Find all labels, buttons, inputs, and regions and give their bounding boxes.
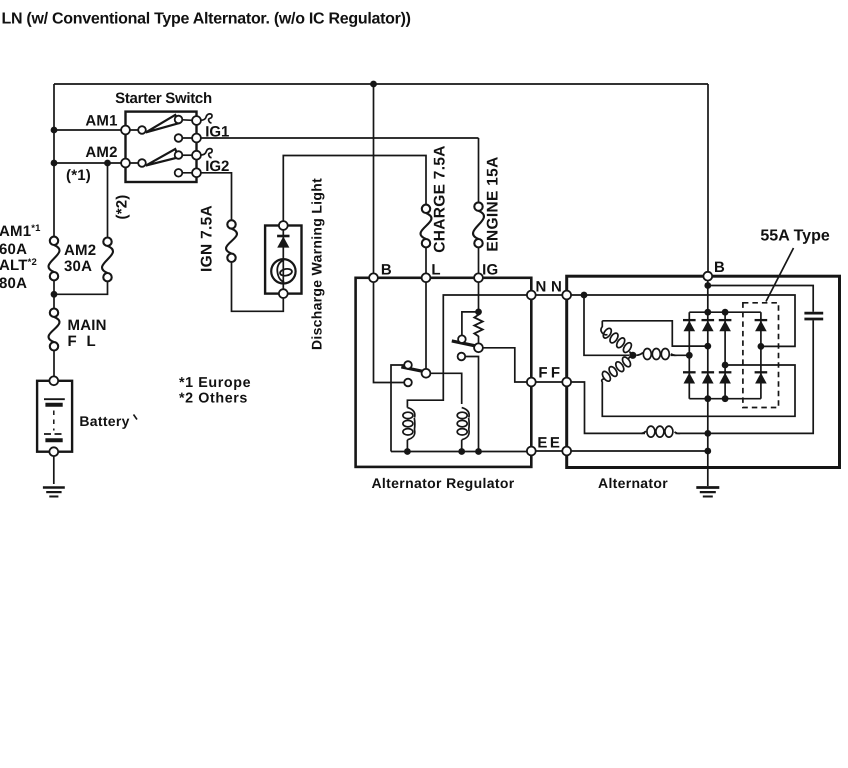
terminal ST2 <box>192 151 201 160</box>
wire relay1 upper contact to bottom rail <box>391 365 404 452</box>
pivot contact AM2 <box>138 159 146 167</box>
regulator terminal IG <box>474 273 483 282</box>
dashed box 55A type <box>743 303 779 408</box>
contact IG2 a <box>175 169 183 177</box>
junction below fuse1 <box>51 291 58 298</box>
relay2 blade <box>452 341 476 346</box>
junction N line to column4 <box>758 343 765 350</box>
wire lamp coil bottom <box>406 440 408 452</box>
wire relay2 lower contact to bottom rail <box>465 357 478 452</box>
fuse F1 AM1/ALT <box>49 237 60 281</box>
junction B capacitor tap <box>704 282 711 289</box>
battery terminal top <box>49 376 58 385</box>
wire rectifier bottom bus <box>689 398 761 400</box>
battery terminal bottom <box>49 447 58 456</box>
wire voltage coil bottom <box>461 440 463 452</box>
wire stator phase2 to rectifier column 3 <box>602 365 795 416</box>
battery plate long 1 <box>44 398 65 400</box>
wire rectifier column 3 <box>724 312 726 399</box>
wire relay2 pivot to F terminal <box>483 348 531 382</box>
svg-text:*2 Others: *2 Others <box>179 391 248 407</box>
wire warning light top to CHARGE fuse <box>283 156 426 222</box>
terminal AM2 <box>121 159 130 168</box>
svg-text:AM2: AM2 <box>64 242 96 259</box>
wire relay1 pivot to voltage coil <box>430 373 461 404</box>
svg-text:B: B <box>714 259 725 276</box>
diode D5 col4 upper <box>755 320 768 331</box>
warning light terminal bottom <box>279 289 288 298</box>
junction top bus col3 <box>722 309 729 316</box>
wire F to field coil <box>567 382 708 433</box>
wire left supply rail <box>53 84 55 237</box>
junction E wire <box>704 448 711 455</box>
diode D4 col3 upper <box>719 320 732 331</box>
junction N inner <box>581 292 588 299</box>
alternator terminal E <box>562 447 571 456</box>
coil voltage relay <box>457 408 469 440</box>
regulator terminal N <box>527 291 536 300</box>
pointer line 55A Type <box>766 248 794 302</box>
junction AM1 on left rail <box>51 127 58 134</box>
wire right drop from rail to alternator B <box>707 84 709 272</box>
stator coil phase1 <box>601 321 633 356</box>
stator centre node <box>629 352 636 359</box>
junction lamp coil bottom <box>404 448 411 455</box>
junction IG resistor node <box>475 309 482 316</box>
ground battery <box>43 488 65 497</box>
wire ENGINE fuse feed <box>478 138 480 202</box>
junction phase3 to column1 <box>686 352 693 359</box>
junction rail to B branch <box>370 81 377 88</box>
junction relay2 contact bottom <box>475 448 482 455</box>
relay2 upper contact <box>458 335 466 343</box>
svg-text:60A: 60A <box>0 241 27 258</box>
svg-text:55A Type: 55A Type <box>760 228 829 245</box>
regulator terminal B <box>369 273 378 282</box>
svg-text:N: N <box>551 279 562 296</box>
pivot contact AM1 <box>138 126 146 134</box>
svg-text:(*2): (*2) <box>114 195 131 220</box>
alternator terminal B <box>703 272 712 281</box>
coil lamp relay <box>403 408 415 440</box>
wire regulator N to alternator N <box>531 294 566 296</box>
alternator box <box>567 276 840 467</box>
battery middle dashes <box>53 411 55 431</box>
terminal IG2 <box>192 168 201 177</box>
wire MAIN FL to battery <box>53 350 55 376</box>
lamp bulb <box>271 259 295 283</box>
stator coil phase2 <box>601 355 633 382</box>
svg-text:*1 Europe: *1 Europe <box>179 375 251 391</box>
wire E to ground line <box>567 450 708 452</box>
stator coil phase3 <box>636 349 676 360</box>
wire AM2 feed <box>54 162 138 164</box>
wire blade1 tip to ST1 <box>182 119 192 122</box>
squiggle ST2 tail <box>201 149 212 158</box>
svg-text:IG1: IG1 <box>205 123 229 140</box>
warning light terminal top <box>279 221 288 230</box>
alternator terminal F <box>562 378 571 387</box>
wire regulator bottom rail to E <box>391 451 531 453</box>
wire capacitor return to ground line <box>708 320 813 433</box>
junction AM2 on left rail <box>51 160 58 167</box>
svg-text:30A: 30A <box>64 258 92 275</box>
diode D1 in warning light <box>277 236 289 248</box>
wire regulator B internal to relay1 lower contact <box>374 282 405 383</box>
wire regulator F to alternator F <box>531 381 566 383</box>
wire regulator L internal to relay1 pivot <box>425 282 427 369</box>
wire alternator N to extra diode pair <box>567 295 795 346</box>
svg-text:E: E <box>550 435 560 452</box>
wire stator phase3 to rectifier column 1 <box>671 354 690 356</box>
junction bottom bus col2 <box>704 395 711 402</box>
junction top bus col2 <box>704 309 711 316</box>
wire fuse1 to MAIN FL <box>53 280 55 309</box>
switch blade AM2 <box>146 149 179 166</box>
svg-text:AM2: AM2 <box>85 144 117 161</box>
svg-text:AM1: AM1 <box>85 113 117 130</box>
alternator terminal N <box>562 291 571 300</box>
wire regulator IG internal <box>478 282 480 316</box>
wire rail branch to regulator B terminal <box>373 84 375 274</box>
junction AM2 fuse branch <box>104 160 111 167</box>
wire rectifier top bus <box>689 311 761 313</box>
starter switch SW1 box <box>126 112 197 182</box>
wire AM2 fuse branch <box>107 163 109 238</box>
svg-text:Battery: Battery <box>79 413 129 429</box>
alternator regulator box <box>356 278 532 467</box>
wire blade2 tip to ST2 <box>182 154 192 156</box>
relay1 blade <box>401 367 423 371</box>
diode D6 col1 lower <box>683 372 696 383</box>
resistor R1 <box>474 315 482 336</box>
discharge warning light box <box>265 226 301 294</box>
diode D2 col1 upper <box>683 320 696 331</box>
squiggle ST1 tail <box>201 114 212 123</box>
blade tip contact 1 <box>175 116 183 124</box>
wire B to capacitor <box>708 286 813 312</box>
terminal AM1 <box>121 126 130 135</box>
junction phase1 to column2 <box>704 343 711 350</box>
wire AM1 feed <box>54 129 138 131</box>
relay2 lower contact <box>458 353 466 361</box>
fuse ENGINE 15A <box>473 202 484 247</box>
wire AM2 fuse bottom to left rail <box>54 281 108 294</box>
battery plate short 2 <box>45 438 62 442</box>
warning light internal wire <box>282 230 284 289</box>
svg-text:ENGINE 15A: ENGINE 15A <box>485 156 502 251</box>
battery tick mark <box>134 415 138 420</box>
junction phase2 to column3 <box>722 362 729 369</box>
regulator terminal F <box>527 378 536 387</box>
wire rectifier column 1 <box>688 312 690 399</box>
relay2 pivot <box>474 343 483 352</box>
wire resistor to relay2 pivot <box>478 336 480 344</box>
svg-text:Discharge Warning Light: Discharge Warning Light <box>309 178 325 350</box>
switch blade AM1 <box>146 115 179 132</box>
wire regulator E to alternator E <box>531 450 566 452</box>
relay1 lower contact <box>404 379 412 387</box>
svg-text:Alternator Regulator: Alternator Regulator <box>371 475 514 491</box>
battery box <box>37 381 72 452</box>
fuse MAIN FL <box>49 309 60 351</box>
terminal IG1 <box>192 134 201 143</box>
junction field and capacitor return <box>704 430 711 437</box>
junction bottom bus col3 <box>722 395 729 402</box>
relay1 upper contact <box>404 361 412 369</box>
regulator terminal L <box>422 273 431 282</box>
svg-text:Alternator: Alternator <box>598 475 668 491</box>
capacitor C1 <box>804 313 823 319</box>
blade tip contact 2 <box>175 151 183 159</box>
svg-text:B: B <box>381 262 392 279</box>
svg-text:N: N <box>535 279 546 296</box>
battery plate long 2 <box>44 433 65 435</box>
wire IG1 from starter switch to ENGINE fuse <box>182 137 478 139</box>
wire battery to ground <box>53 456 55 484</box>
wire alternator B line down through rectifier to ground <box>707 281 709 486</box>
fuse F2 AM2 30A <box>102 238 113 282</box>
svg-text:Starter Switch: Starter Switch <box>115 90 212 107</box>
svg-text:MAIN: MAIN <box>68 317 107 334</box>
fuse IGN 7.5A <box>226 220 237 262</box>
svg-text:LN (w/ Conventional Type Alter: LN (w/ Conventional Type Alternator. (w/… <box>2 11 411 28</box>
contact IG1 a <box>175 134 183 142</box>
wire ENGINE fuse to regulator IG terminal <box>478 247 480 273</box>
lamp filament <box>277 260 292 282</box>
svg-text:IGN 7.5A: IGN 7.5A <box>199 205 216 272</box>
relay1 pivot <box>422 369 431 378</box>
regulator terminal E <box>527 447 536 456</box>
battery plate short 1 <box>45 403 62 407</box>
svg-text:F: F <box>538 365 547 382</box>
svg-text:80A: 80A <box>0 275 27 292</box>
svg-text:CHARGE 7.5A: CHARGE 7.5A <box>432 145 449 253</box>
wire rectifier column 4 <box>760 312 762 399</box>
wire alternator N to stator centre <box>584 295 629 355</box>
wire CHARGE fuse to regulator L terminal <box>425 247 427 273</box>
svg-text:(*1): (*1) <box>66 167 91 184</box>
junction voltage coil bottom <box>458 448 465 455</box>
terminal ST1 <box>192 116 201 125</box>
diode D7 col2 lower <box>702 372 715 383</box>
diode D9 col4 lower <box>755 372 768 383</box>
svg-text:IG: IG <box>482 262 498 279</box>
fuse CHARGE 7.5A <box>421 205 432 248</box>
wire lamp coil top to N terminal <box>407 295 531 408</box>
svg-text:L: L <box>431 262 440 279</box>
wire relay2 upper contact branch <box>462 312 479 336</box>
wire stator phase1 to rectifier column 2 <box>602 321 708 346</box>
svg-text:E: E <box>537 435 547 452</box>
wire IGN fuse to discharge warning light bottom <box>232 262 284 311</box>
wire IG2 from starter switch to IGN fuse <box>182 173 231 220</box>
ground alternator <box>696 488 719 497</box>
diode D8 col3 lower <box>719 372 732 383</box>
svg-text:F: F <box>551 365 560 382</box>
diode D3 col2 upper <box>702 320 715 331</box>
field coil rotor <box>642 426 681 437</box>
svg-text:IG2: IG2 <box>205 158 229 175</box>
wire top supply rail <box>54 83 708 85</box>
